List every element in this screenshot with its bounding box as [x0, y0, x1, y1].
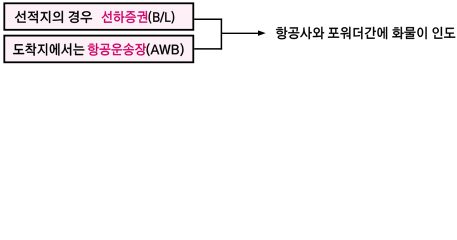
wire from box 2: [194, 48, 222, 50]
box 2 text: (AWB) (black): [147, 43, 184, 56]
vertical joining wire: [220, 18, 222, 49]
box 1: shipping point B/L: [4, 3, 193, 30]
box 1 text: 선적지의 경우 (black): [15, 11, 92, 23]
arrow wire: [221, 32, 259, 34]
wire from box 1: [194, 18, 222, 20]
arrowhead: [258, 30, 266, 36]
box 2 text: 도착지에서는 (black): [13, 43, 84, 55]
box 1 text: 선하증권 (magenta): [102, 11, 148, 23]
box 2: destination AWB: [4, 36, 193, 63]
box 2 text: 항공운송장 (magenta): [88, 43, 146, 55]
box 1 text: (B/L) (black): [149, 11, 175, 24]
result text: 항공사와 포워더간에 화물이 인도: [276, 27, 455, 39]
